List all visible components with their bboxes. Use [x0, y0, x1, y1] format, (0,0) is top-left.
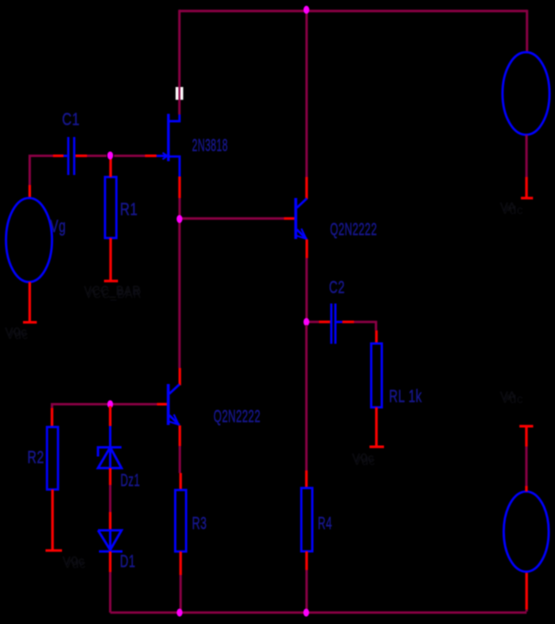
zener diode Dz1: [98, 426, 122, 468]
wire node B down to R4: [305, 325, 307, 471]
wire Dz1 to D1: [109, 485, 111, 512]
pin VA2 minus from bottom rail: [525, 610, 527, 612]
ground under R2: [46, 549, 63, 552]
capacitor C2 plates: [330, 304, 342, 344]
node B junction dot: [304, 318, 310, 326]
svg-text:2N3818: 2N3818: [192, 136, 228, 156]
white pause marker on drain wire: [176, 87, 184, 100]
pin RL top: [375, 330, 378, 343]
ground under Vg: [23, 321, 37, 324]
svg-text:VCC_BAR: VCC_BAR: [85, 286, 142, 301]
pin C2 right: [342, 321, 354, 324]
ground label smudge under RL: [352, 451, 375, 468]
wire R3 bottom to bottom rail: [179, 575, 181, 613]
node top rail junction dot: [304, 6, 310, 14]
pin J1 source: [178, 177, 181, 199]
wire VA1 to ground: [525, 135, 527, 177]
source Vg body: [6, 198, 52, 282]
pin C1 right: [75, 155, 87, 158]
wire node C left to R2 corner: [52, 403, 108, 408]
svg-text:R1: R1: [120, 200, 138, 219]
wire D1 to bottom rail: [109, 572, 111, 613]
wire top rail drop to Q1 collector: [305, 11, 307, 177]
ground label smudge above VA2: [500, 389, 523, 406]
wire Q2 emitter to R3: [179, 446, 181, 473]
pin Q2 collector: [179, 368, 182, 385]
source VA2 body: [504, 491, 549, 571]
wire R4 bottom to bottom rail: [305, 570, 307, 611]
ground label smudge VCC_BAR: [84, 283, 142, 301]
wire bottom rail: [110, 611, 526, 613]
ground label smudge under Vg: [5, 325, 28, 342]
pin R1 bottom to ground: [109, 238, 112, 280]
pin VA1 minus ground stem: [525, 177, 528, 198]
pin R4 top: [305, 471, 308, 489]
svg-text:C1: C1: [62, 110, 80, 129]
wire left drop from top rail to J1 drain: [178, 10, 180, 115]
pin D1 top: [109, 512, 112, 530]
pin VA2 plus: [525, 486, 528, 492]
svg-text:Vdc: Vdc: [501, 203, 523, 217]
resistor R2: [47, 427, 58, 490]
ground label smudge right of R2 ground: [63, 554, 86, 571]
pin Q2 base: [157, 403, 168, 406]
pin Q1 emitter: [305, 239, 308, 258]
resistor R1: [105, 177, 116, 238]
pin J1 gate: [145, 155, 157, 158]
svg-text:Q2N2222: Q2N2222: [330, 220, 377, 240]
ground above VA2 flipped: [525, 426, 528, 446]
capacitor C1 plates: [63, 137, 75, 175]
resistor RL: [371, 344, 382, 408]
pin Q1 base: [284, 217, 296, 220]
pin C2 left: [319, 321, 330, 324]
wire gate node to J1 gate: [114, 155, 145, 157]
svg-text:D1: D1: [120, 552, 135, 572]
svg-text:Vdc: Vdc: [6, 328, 28, 342]
wire node A to Q1 base: [181, 217, 284, 219]
svg-text:Vdc: Vdc: [501, 392, 523, 406]
wire C1 to Vg corner: [30, 155, 53, 185]
node bottom rail R3 junction dot: [177, 609, 183, 617]
svg-text:Vg: Vg: [50, 217, 66, 237]
pin R3 top: [179, 473, 182, 490]
wire Q1 emitter to node B: [305, 258, 307, 319]
resistor R3: [175, 490, 186, 552]
transistor Q1 Q2N2222 body: [294, 198, 307, 239]
wire C1 to gate node: [87, 155, 107, 157]
wire node A down to Q2 collector: [178, 221, 180, 368]
ground label smudge under VA1: [500, 200, 523, 217]
svg-text:C2: C2: [329, 278, 345, 298]
pin Dz1 top: [109, 406, 112, 426]
svg-text:R2: R2: [27, 448, 44, 468]
source VA1 body: [503, 52, 550, 135]
transistor Q2 Q2N2222 body: [167, 384, 180, 425]
svg-text:Dz1: Dz1: [121, 471, 141, 491]
pin Dz1 bottom: [109, 468, 112, 485]
pin Q2 emitter: [179, 425, 182, 446]
wire node B to C2: [308, 321, 319, 323]
wire J1 source to node A: [178, 198, 180, 217]
pin Q1 collector: [305, 177, 308, 199]
pin C1 left: [53, 155, 64, 158]
pin D1 bottom: [109, 551, 112, 572]
svg-text:Vdc: Vdc: [64, 557, 86, 571]
wire VA2 to ground stem: [525, 447, 527, 487]
ground under R1: [104, 280, 118, 283]
svg-text:R3: R3: [192, 513, 207, 533]
node bottom rail R4 junction dot: [303, 609, 309, 617]
wire C2 to RL corner: [354, 322, 376, 331]
pin R1 top: [109, 158, 112, 177]
svg-text:RL 1k: RL 1k: [389, 387, 422, 407]
diode D1: [98, 530, 123, 551]
pin R2 top: [51, 408, 54, 427]
node A junction dot: [177, 215, 183, 223]
node C junction dot: [107, 400, 113, 408]
svg-text:R4: R4: [318, 514, 333, 533]
svg-text:Vdc: Vdc: [353, 454, 375, 468]
pin R2 bottom to ground: [51, 490, 54, 551]
resistor R4: [301, 488, 312, 551]
pin R4 bottom: [305, 551, 308, 570]
pin Vg plus: [28, 185, 31, 199]
svg-text:Q2N2222: Q2N2222: [214, 407, 261, 427]
wire top rail: [179, 10, 527, 12]
ground under RL: [370, 445, 385, 448]
ground under VA1: [521, 197, 533, 200]
pin Vg minus to ground: [28, 282, 31, 322]
wire top rail right drop to source VA1: [526, 10, 528, 53]
node gate junction dot: [107, 152, 113, 160]
transistor J1 2N3818 body: [157, 114, 180, 177]
pin R3 bottom: [179, 552, 182, 576]
wire bias node C to Q2 base: [112, 403, 157, 405]
pin RL bottom to ground: [375, 407, 378, 446]
